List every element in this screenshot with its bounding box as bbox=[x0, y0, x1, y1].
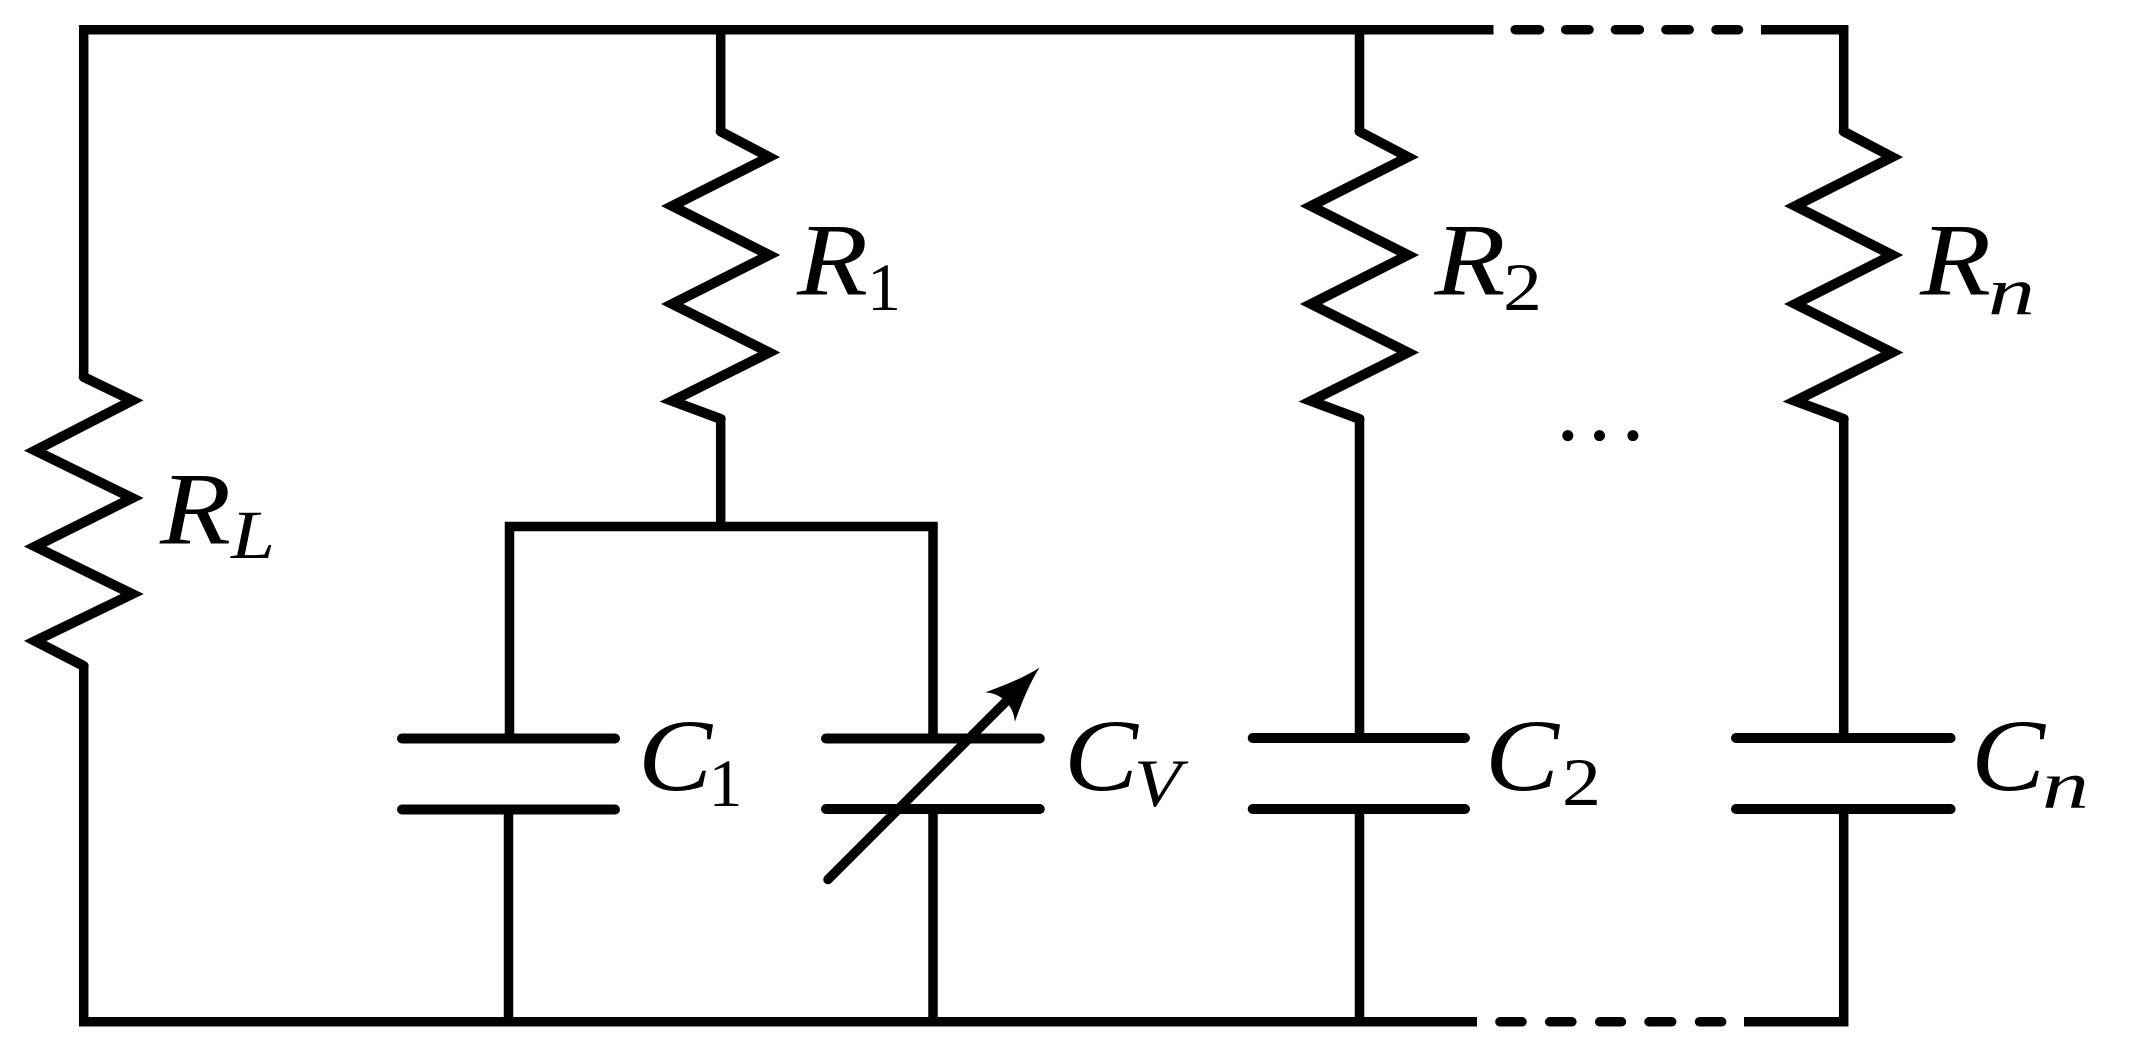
svg-text:n: n bbox=[2042, 747, 2089, 823]
svg-text:R: R bbox=[796, 204, 868, 318]
wire C1/CV parallel bar bbox=[510, 527, 934, 740]
wire below C2 bbox=[1355, 809, 1365, 1022]
svg-text:C: C bbox=[1485, 699, 1560, 813]
svg-text:n: n bbox=[1988, 253, 2035, 329]
capacitor C2 bbox=[1253, 738, 1465, 809]
capacitor CV (variable) bbox=[826, 739, 1040, 810]
svg-text:C: C bbox=[638, 699, 713, 813]
svg-text:1: 1 bbox=[709, 745, 743, 821]
wire R1 branch top bbox=[716, 30, 726, 132]
wire top dashed segment bbox=[1515, 25, 1738, 35]
wire R1 bottom to bar bbox=[716, 419, 726, 526]
svg-text:L: L bbox=[230, 497, 275, 573]
resistor Rn bbox=[1795, 132, 1892, 420]
svg-text:2: 2 bbox=[1503, 249, 1542, 325]
wire top-left + left rail down to RL bbox=[84, 30, 1494, 377]
svg-text:C: C bbox=[1971, 699, 2046, 813]
wire Rn to Cn bbox=[1839, 419, 1849, 739]
ellipsis dots between R2 and Rn bbox=[1562, 430, 1638, 441]
wire R2 to C2 bbox=[1355, 419, 1365, 739]
svg-text:R: R bbox=[1433, 204, 1505, 318]
svg-text:2: 2 bbox=[1562, 744, 1601, 820]
wire left rail below RL + bottom rail solid bbox=[84, 666, 1477, 1022]
capacitor C1 bbox=[402, 739, 615, 810]
wire top-right corner down to Rn bbox=[1761, 30, 1844, 132]
wire below CV bbox=[928, 809, 938, 1022]
wire bottom dashed segment bbox=[1500, 1017, 1722, 1027]
wire R2 branch top bbox=[1355, 30, 1365, 132]
svg-text:R: R bbox=[159, 452, 231, 566]
wire below Cn + bottom-right corner bbox=[1744, 809, 1844, 1022]
svg-text:R: R bbox=[1919, 204, 1991, 318]
svg-text:C: C bbox=[1064, 699, 1139, 813]
arrowhead of CV bbox=[985, 653, 1054, 722]
resistor R1 bbox=[672, 132, 769, 420]
resistor RL bbox=[35, 377, 132, 666]
svg-text:1: 1 bbox=[867, 249, 901, 325]
capacitor Cn bbox=[1736, 738, 1951, 809]
wire below C1 bbox=[504, 810, 514, 1022]
resistor R2 bbox=[1311, 132, 1408, 420]
arrow shaft of CV bbox=[828, 692, 1016, 880]
